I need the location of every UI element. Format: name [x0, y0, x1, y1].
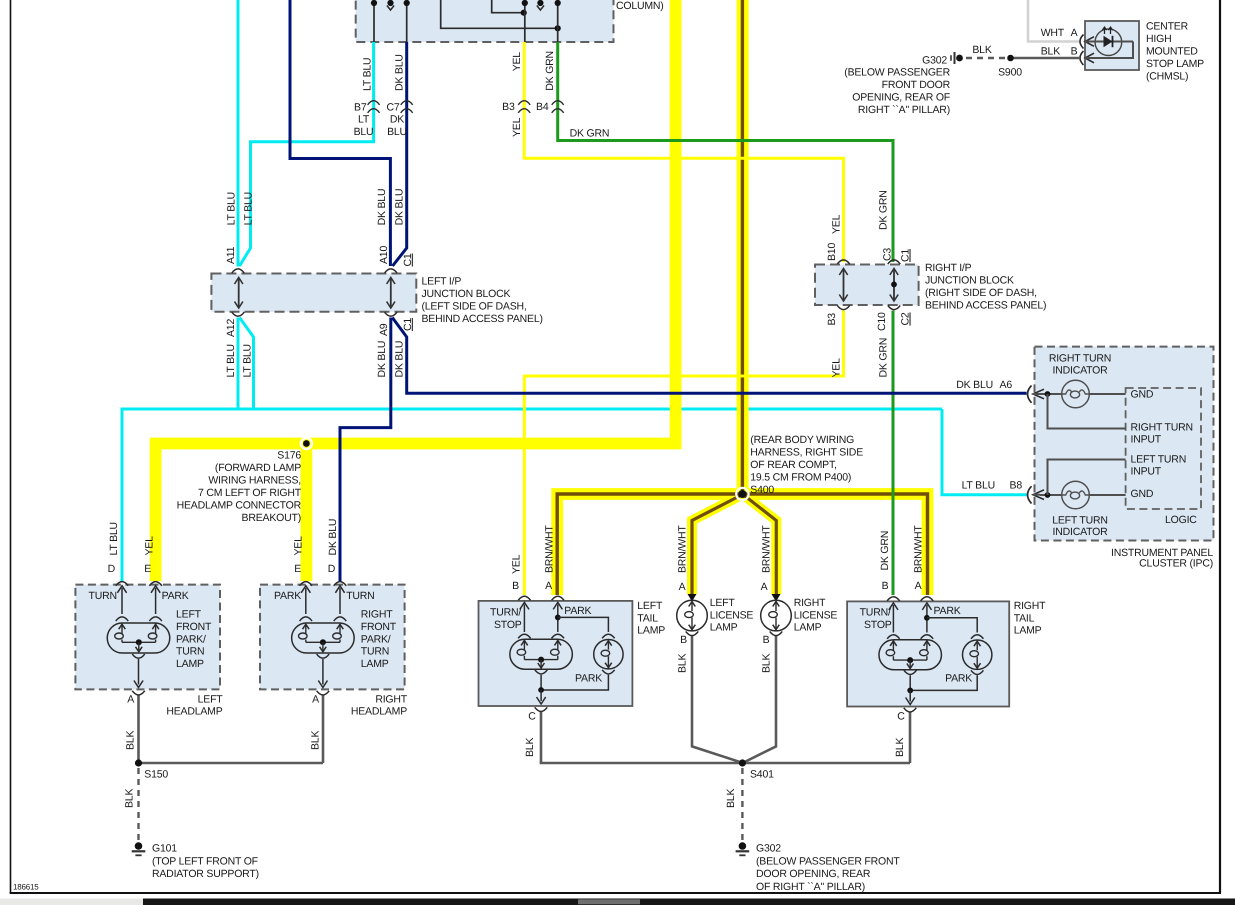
- wire YEL from switch B3 to right junction B10: [524, 42, 843, 262]
- svg-text:GND: GND: [1131, 488, 1154, 500]
- svg-text:D: D: [108, 563, 116, 575]
- BRN/WHT core wires: [741, 0, 744, 494]
- svg-text:C1: C1: [402, 318, 414, 331]
- svg-text:LT BLU: LT BLU: [226, 192, 238, 225]
- svg-text:DK GRN: DK GRN: [878, 338, 890, 378]
- right I/P junction block box: [815, 265, 919, 306]
- right tail lamp terminal B: [887, 597, 900, 601]
- connector left headlamp A: [132, 691, 145, 695]
- connector B4: [552, 101, 564, 105]
- svg-text:LAMP: LAMP: [794, 622, 822, 634]
- svg-text:LEFT I/P: LEFT I/P: [422, 276, 462, 288]
- wire DK BLU from C7 to A10: [393, 42, 407, 266]
- left junction block terminal A10: [385, 269, 398, 273]
- connector C7: [401, 101, 413, 105]
- svg-text:PARK/: PARK/: [176, 633, 206, 645]
- svg-text:BLU: BLU: [387, 126, 407, 138]
- svg-text:LICENSE: LICENSE: [710, 609, 754, 621]
- right front park/turn lamp terminal D: [334, 582, 347, 586]
- wire: [406, 3, 408, 43]
- svg-text:LAMP: LAMP: [1014, 625, 1042, 637]
- svg-text:B7: B7: [354, 102, 367, 114]
- svg-text:OF RIGHT ``A" PILLAR): OF RIGHT ``A" PILLAR): [756, 881, 865, 893]
- svg-text:(BELOW PASSENGER FRONT: (BELOW PASSENGER FRONT: [756, 855, 900, 867]
- svg-text:PARK: PARK: [564, 605, 591, 617]
- svg-text:HEADLAMP: HEADLAMP: [351, 705, 407, 717]
- wire BLK left headlamp A to S150: [137, 695, 140, 764]
- wire DK GRN from switch B4 to right junction C3: [558, 42, 893, 262]
- svg-text:A12: A12: [225, 319, 237, 337]
- svg-text:A: A: [127, 694, 134, 706]
- svg-text:LT BLU: LT BLU: [242, 344, 254, 377]
- svg-text:LEFT TURN: LEFT TURN: [1131, 453, 1187, 465]
- svg-text:YEL: YEL: [511, 554, 523, 574]
- svg-text:RIGHT TURN: RIGHT TURN: [1049, 353, 1111, 365]
- svg-text:(BELOW PASSENGER: (BELOW PASSENGER: [844, 67, 950, 79]
- svg-text:BLK: BLK: [894, 738, 906, 757]
- thick YEL feed wire (park lamp circuit): [156, 0, 676, 581]
- svg-text:DOOR OPENING, REAR: DOOR OPENING, REAR: [756, 868, 871, 880]
- thick YEL branch S176 to right front lamp E: [300, 444, 312, 582]
- svg-text:DK GRN: DK GRN: [544, 51, 556, 91]
- svg-text:YEL: YEL: [143, 536, 155, 556]
- svg-text:LEFT: LEFT: [710, 597, 736, 609]
- svg-text:DK BLU: DK BLU: [376, 189, 388, 226]
- wire BLK right headlamp A to S150: [322, 695, 325, 764]
- IPC right turn indicator lamp: [1062, 380, 1090, 408]
- svg-text:A: A: [679, 581, 686, 593]
- svg-text:LT BLU: LT BLU: [962, 480, 995, 492]
- svg-text:LT BLU: LT BLU: [362, 58, 374, 91]
- svg-text:TAIL: TAIL: [1014, 612, 1035, 624]
- wire WHT CHMSL A: [1028, 0, 1079, 42]
- wire LT BLU from switch to A11: [237, 0, 240, 267]
- right junction block terminal B10: [837, 260, 850, 264]
- svg-text:C10: C10: [876, 312, 888, 331]
- svg-text:TAIL: TAIL: [637, 612, 658, 624]
- left junction block terminal A11: [232, 269, 245, 273]
- svg-text:(CHMSL): (CHMSL): [1146, 71, 1188, 83]
- wire: [524, 3, 526, 43]
- svg-text:BRN/WHT: BRN/WHT: [677, 525, 689, 573]
- svg-text:RIGHT I/P: RIGHT I/P: [925, 262, 972, 274]
- svg-text:S401: S401: [750, 769, 774, 781]
- svg-text:B8: B8: [1010, 480, 1023, 492]
- IPC wiring left: [1040, 494, 1062, 496]
- thick branch to right license lamp: [744, 496, 776, 595]
- svg-text:RIGHT TURN: RIGHT TURN: [1131, 422, 1193, 434]
- splice S900: [1007, 55, 1014, 62]
- svg-text:BLK: BLK: [125, 731, 137, 750]
- svg-text:YEL: YEL: [293, 536, 305, 556]
- svg-text:BLK: BLK: [524, 738, 536, 757]
- svg-text:TURN/: TURN/: [490, 607, 521, 619]
- right front park/turn lamp terminal E: [300, 582, 313, 586]
- switch contact stub: [387, 0, 393, 6]
- svg-text:FRONT: FRONT: [176, 621, 212, 633]
- right tail bulb outputs: [904, 670, 917, 674]
- right front lamp output to A: [317, 654, 330, 658]
- svg-text:B3: B3: [826, 313, 838, 326]
- svg-text:A9: A9: [378, 323, 390, 336]
- connector CHMSL A: [1080, 35, 1084, 49]
- svg-text:A: A: [761, 581, 768, 593]
- svg-text:DK GRN: DK GRN: [879, 531, 891, 571]
- svg-text:LAMP: LAMP: [361, 658, 389, 670]
- svg-text:LEFT TURN: LEFT TURN: [1052, 515, 1108, 527]
- wire LT BLU down to left front lamp: [121, 408, 124, 582]
- left front lamp output to A: [132, 654, 145, 658]
- left front park/turn lamp terminal E: [149, 582, 162, 586]
- svg-text:OPENING, REAR OF: OPENING, REAR OF: [852, 92, 950, 104]
- svg-text:BEHIND ACCESS PANEL): BEHIND ACCESS PANEL): [422, 313, 543, 325]
- svg-text:WIRING HARNESS,: WIRING HARNESS,: [208, 475, 301, 487]
- left front park/turn lamp terminal D: [116, 582, 129, 586]
- svg-text:YEL: YEL: [831, 214, 843, 234]
- svg-text:INDICATOR: INDICATOR: [1053, 365, 1109, 377]
- svg-text:HIGH: HIGH: [1146, 33, 1171, 45]
- svg-text:BEHIND ACCESS PANEL): BEHIND ACCESS PANEL): [925, 300, 1046, 312]
- wire BLK CHMSL B to S900: [1014, 57, 1080, 60]
- right junction block terminal C3 with splice: [888, 260, 901, 264]
- svg-text:C1: C1: [402, 253, 414, 266]
- svg-text:A: A: [1071, 27, 1078, 39]
- ground G101: [135, 842, 143, 850]
- connector right headlamp A: [317, 691, 330, 695]
- svg-text:JUNCTION BLOCK: JUNCTION BLOCK: [925, 275, 1014, 287]
- page frame: [10, 0, 12, 893]
- wire DK GRN C10 to right tail lamp B: [892, 311, 895, 596]
- splice S150: [135, 759, 142, 766]
- svg-text:BLK: BLK: [972, 44, 991, 56]
- svg-text:CLUSTER (IPC): CLUSTER (IPC): [1139, 558, 1213, 570]
- svg-text:TURN: TURN: [361, 646, 389, 658]
- svg-text:LT: LT: [358, 114, 370, 126]
- wire BLK left license lamp B: [692, 636, 741, 762]
- connector IPC B8: [1028, 486, 1032, 503]
- svg-text:PARK: PARK: [162, 590, 189, 602]
- svg-text:RIGHT: RIGHT: [361, 609, 393, 621]
- svg-text:BRN/WHT: BRN/WHT: [913, 525, 925, 573]
- wire BLK S401 to G302: [741, 768, 743, 840]
- svg-text:B: B: [512, 580, 519, 592]
- svg-text:INDICATOR: INDICATOR: [1053, 526, 1109, 538]
- ground G302: [739, 842, 747, 850]
- svg-text:YEL: YEL: [831, 358, 843, 378]
- wire BLK S900 to G302 (dashed): [966, 57, 1007, 59]
- svg-text:LT BLU: LT BLU: [243, 192, 255, 225]
- svg-text:B3: B3: [502, 101, 515, 113]
- left license lamp bulb: [677, 600, 708, 631]
- svg-text:DK GRN: DK GRN: [878, 190, 890, 230]
- thick branch to left license lamp: [692, 496, 741, 595]
- right tail lamp box: [847, 601, 1009, 706]
- CHMSL B internal wire: [1094, 42, 1133, 59]
- svg-text:HEADLAMP CONNECTOR: HEADLAMP CONNECTOR: [177, 500, 302, 512]
- svg-text:DK BLU: DK BLU: [376, 341, 388, 378]
- svg-text:PARK: PARK: [945, 673, 972, 685]
- svg-text:TURN: TURN: [176, 646, 204, 658]
- svg-text:B: B: [763, 634, 770, 646]
- svg-text:COLUMN): COLUMN): [616, 0, 664, 12]
- svg-text:LAMP: LAMP: [710, 622, 738, 634]
- svg-text:WHT: WHT: [1041, 27, 1065, 39]
- connector right tail C: [904, 708, 917, 712]
- svg-text:A10: A10: [378, 246, 390, 264]
- IPC left turn indicator lamp: [1062, 481, 1090, 509]
- svg-text:E: E: [294, 563, 301, 575]
- wire LT BLU to IPC B8: [942, 409, 1027, 495]
- wire BLK right tail lamp C: [909, 712, 912, 764]
- svg-text:B: B: [680, 634, 687, 646]
- svg-text:G101: G101: [152, 843, 177, 855]
- splice S401: [739, 759, 746, 766]
- wire LT BLU A12 branch to IPC: [240, 318, 254, 410]
- svg-text:(RIGHT SIDE OF DASH,: (RIGHT SIDE OF DASH,: [925, 287, 1037, 299]
- svg-text:C2: C2: [900, 312, 912, 325]
- thick BRN/WHT rear feed wire: [737, 0, 749, 494]
- svg-text:BLK: BLK: [310, 731, 322, 750]
- svg-text:LOGIC: LOGIC: [1165, 514, 1197, 526]
- svg-text:LAMP: LAMP: [637, 625, 665, 637]
- svg-text:RIGHT ``A" PILLAR): RIGHT ``A" PILLAR): [858, 104, 950, 116]
- center high mounted stop lamp (CHMSL) box: [1085, 21, 1139, 70]
- svg-text:LEFT: LEFT: [176, 609, 202, 621]
- svg-text:DK: DK: [390, 114, 404, 126]
- right tail dual filament bulb: [879, 640, 942, 670]
- svg-text:DK BLU: DK BLU: [394, 189, 406, 226]
- svg-text:A: A: [545, 580, 552, 592]
- svg-text:S176: S176: [277, 450, 301, 462]
- left tail lamp A splice to park bulb: [555, 615, 561, 621]
- svg-text:C3: C3: [882, 248, 894, 261]
- connector IPC A6: [1028, 386, 1032, 403]
- svg-text:MOUNTED: MOUNTED: [1146, 46, 1198, 58]
- svg-text:BLK: BLK: [725, 789, 737, 808]
- svg-text:LT BLU: LT BLU: [225, 344, 237, 377]
- svg-text:DK BLU: DK BLU: [393, 54, 405, 91]
- svg-text:LEFT: LEFT: [637, 600, 663, 612]
- wire: [557, 3, 559, 43]
- right tail lamp A splice to park bulb: [924, 615, 930, 621]
- svg-text:BLK: BLK: [677, 654, 689, 673]
- connector left license B: [686, 631, 699, 635]
- wire DK BLU A9 branch to IPC A6: [392, 318, 1026, 394]
- wire BLK S150 to G101: [137, 768, 139, 840]
- wire: [492, 0, 524, 13]
- left tail bulb outputs: [535, 670, 548, 674]
- left front park/turn lamp box (left headlamp): [75, 585, 220, 690]
- thick branch to left tail lamp A: [557, 494, 742, 595]
- left tail dual filament bulb: [510, 639, 572, 669]
- wire DK BLU A9 to right front lamp D: [340, 318, 391, 582]
- left tail lamp box: [479, 601, 633, 706]
- right junction block terminal B3: [837, 305, 850, 309]
- svg-text:STOP: STOP: [494, 619, 522, 631]
- svg-text:INPUT: INPUT: [1131, 434, 1162, 446]
- left tail park bulb: [594, 640, 623, 669]
- splice S400: [736, 488, 748, 500]
- svg-text:TURN: TURN: [89, 590, 117, 602]
- svg-text:YEL: YEL: [511, 117, 523, 137]
- svg-text:PARK: PARK: [575, 673, 602, 685]
- ground G302 (CHMSL): [956, 55, 963, 62]
- svg-text:GND: GND: [1131, 389, 1154, 401]
- svg-text:OF REAR COMPT,: OF REAR COMPT,: [750, 459, 836, 471]
- svg-text:A: A: [915, 580, 922, 592]
- svg-text:RADIATOR SUPPORT): RADIATOR SUPPORT): [152, 868, 259, 880]
- switch contact stub: [537, 0, 543, 6]
- left I/P junction block box: [211, 274, 416, 312]
- right front park/turn dual filament bulb: [292, 623, 355, 653]
- svg-text:TURN: TURN: [346, 590, 374, 602]
- multifunction turn signal switch (steering column) internals: [373, 3, 375, 43]
- left front park/turn dual filament bulb: [107, 623, 170, 653]
- wire LT BLU horizontal run: [122, 408, 942, 411]
- svg-text:A: A: [312, 694, 319, 706]
- IPC wiring right: [1040, 393, 1062, 395]
- svg-text:LEFT: LEFT: [198, 693, 224, 705]
- wire DK BLU from switch to A10: [290, 0, 390, 266]
- thick branch to right tail lamp A: [743, 494, 928, 595]
- svg-text:B: B: [1071, 46, 1078, 58]
- connector CHMSL B: [1080, 51, 1084, 65]
- arrowhead into right license lamp: [772, 594, 781, 602]
- svg-text:G302: G302: [922, 55, 947, 67]
- svg-text:LAMP: LAMP: [176, 658, 204, 670]
- svg-text:S900: S900: [998, 67, 1022, 79]
- left tail lamp terminal B: [518, 596, 531, 600]
- svg-text:DK BLU: DK BLU: [956, 379, 993, 391]
- svg-text:PARK: PARK: [934, 605, 961, 617]
- svg-text:DK BLU: DK BLU: [394, 341, 406, 378]
- connector B3: [518, 101, 530, 105]
- svg-text:LICENSE: LICENSE: [794, 609, 838, 621]
- wire: [441, 0, 558, 28]
- svg-text:(FORWARD LAMP: (FORWARD LAMP: [215, 462, 301, 474]
- right license lamp bulb: [761, 600, 792, 631]
- svg-text:G302: G302: [756, 843, 781, 855]
- svg-text:STOP LAMP: STOP LAMP: [1146, 58, 1204, 70]
- wire BLK left tail lamp C: [540, 712, 543, 764]
- right junction block terminal C10: [888, 305, 901, 309]
- svg-text:INPUT: INPUT: [1131, 465, 1162, 477]
- svg-text:BRN/WHT: BRN/WHT: [544, 525, 556, 573]
- svg-text:B4: B4: [536, 101, 549, 113]
- IPC logic module box: [1126, 388, 1201, 509]
- wire BLK right license lamp B: [744, 636, 776, 762]
- svg-text:(REAR BODY WIRING: (REAR BODY WIRING: [750, 434, 854, 446]
- svg-text:C: C: [528, 711, 536, 723]
- svg-text:TURN/: TURN/: [860, 607, 891, 619]
- svg-text:C1: C1: [900, 249, 912, 262]
- svg-text:RIGHT: RIGHT: [1014, 600, 1046, 612]
- svg-text:B: B: [882, 580, 889, 592]
- svg-text:BLK: BLK: [761, 654, 773, 673]
- svg-text:LT BLU: LT BLU: [108, 522, 120, 555]
- svg-text:YEL: YEL: [511, 52, 523, 72]
- svg-text:(TOP LEFT FRONT OF: (TOP LEFT FRONT OF: [152, 855, 258, 867]
- svg-text:JUNCTION BLOCK: JUNCTION BLOCK: [422, 288, 511, 300]
- svg-text:E: E: [144, 563, 151, 575]
- svg-text:DK BLU: DK BLU: [327, 519, 339, 556]
- left tail lamp terminal A: [552, 596, 565, 600]
- svg-text:A11: A11: [225, 246, 237, 264]
- wire YEL B3 to left tail lamp B: [524, 311, 843, 596]
- svg-text:S150: S150: [144, 769, 168, 781]
- svg-text:BLU: BLU: [354, 126, 374, 138]
- svg-text:A6: A6: [1000, 379, 1013, 391]
- svg-text:(LEFT SIDE OF DASH,: (LEFT SIDE OF DASH,: [422, 301, 527, 313]
- left junction block terminal A9: [385, 312, 398, 316]
- turn signal switch box (steering column, cut off at top): [356, 0, 614, 42]
- right front park/turn lamp box (right headlamp): [260, 585, 405, 690]
- svg-text:FRONT: FRONT: [361, 621, 397, 633]
- svg-text:PARK/: PARK/: [361, 633, 391, 645]
- svg-text:BLK: BLK: [124, 789, 136, 808]
- svg-text:STOP: STOP: [864, 619, 892, 631]
- svg-text:RIGHT: RIGHT: [794, 597, 826, 609]
- svg-text:BREAKOUT): BREAKOUT): [242, 512, 301, 524]
- svg-text:B10: B10: [826, 243, 838, 261]
- wire LT BLU A12 to left front lamp D: [237, 318, 240, 410]
- svg-text:186615: 186615: [13, 883, 39, 892]
- svg-text:DK GRN: DK GRN: [570, 128, 610, 140]
- svg-text:BLK: BLK: [1041, 46, 1060, 58]
- arrowhead into left license lamp: [688, 594, 697, 602]
- svg-text:19.5 CM FROM P400): 19.5 CM FROM P400): [750, 472, 851, 484]
- svg-text:HARNESS, RIGHT SIDE: HARNESS, RIGHT SIDE: [750, 447, 863, 459]
- svg-text:D: D: [328, 563, 336, 575]
- wire LT BLU from B7 to A11: [240, 42, 374, 266]
- splice S176: [301, 438, 312, 449]
- instrument panel cluster (IPC) box: [1035, 347, 1214, 541]
- svg-text:CENTER: CENTER: [1146, 21, 1189, 33]
- svg-text:C: C: [897, 711, 905, 723]
- svg-text:C7: C7: [386, 102, 399, 114]
- right tail park bulb: [963, 640, 992, 669]
- svg-text:S400: S400: [750, 484, 774, 496]
- svg-text:HEADLAMP: HEADLAMP: [166, 705, 222, 717]
- connector right license B: [770, 631, 783, 635]
- right tail lamp terminal A: [921, 597, 934, 601]
- connector left tail C: [535, 707, 548, 711]
- connector B7: [368, 101, 380, 105]
- svg-text:7 CM LEFT OF RIGHT: 7 CM LEFT OF RIGHT: [198, 487, 302, 499]
- CHMSL lamp (LED): [1095, 29, 1122, 56]
- svg-text:RIGHT: RIGHT: [375, 693, 407, 705]
- left junction block terminal A12: [232, 312, 245, 316]
- svg-text:BRN/WHT: BRN/WHT: [761, 525, 773, 573]
- svg-text:FRONT DOOR: FRONT DOOR: [882, 79, 951, 91]
- bottom window bar: [0, 899, 1235, 905]
- svg-text:PARK: PARK: [274, 590, 301, 602]
